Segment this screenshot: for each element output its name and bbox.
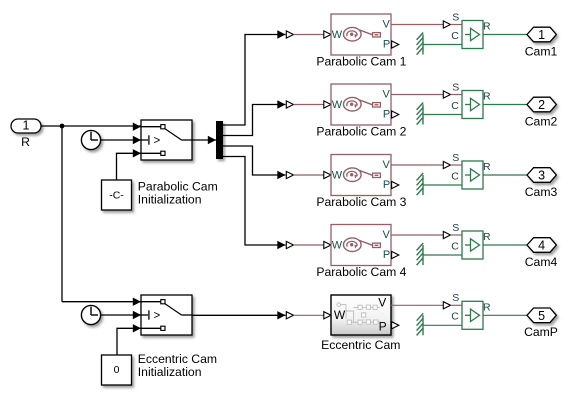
svg-text:Cam1: Cam1 <box>525 44 558 58</box>
svg-text:1: 1 <box>23 119 30 133</box>
svg-text:Parabolic Cam: Parabolic Cam <box>138 180 218 194</box>
svg-text:P: P <box>383 179 390 191</box>
svg-text:R: R <box>483 91 491 103</box>
svg-text:R: R <box>483 161 491 173</box>
svg-text:2: 2 <box>538 98 545 112</box>
svg-text:V: V <box>378 296 386 310</box>
svg-text:4: 4 <box>538 239 545 253</box>
svg-text:>: > <box>153 310 160 322</box>
svg-text:Parabolic Cam 2: Parabolic Cam 2 <box>316 125 406 139</box>
svg-text:P: P <box>383 249 390 261</box>
svg-text:S: S <box>452 11 459 23</box>
svg-text:Parabolic Cam 1: Parabolic Cam 1 <box>316 55 406 69</box>
svg-text:Initialization: Initialization <box>138 193 202 207</box>
svg-text:S: S <box>452 222 459 234</box>
svg-text:W: W <box>332 239 343 251</box>
svg-text:1: 1 <box>538 28 545 42</box>
svg-text:Parabolic Cam 4: Parabolic Cam 4 <box>316 265 406 279</box>
svg-text:V: V <box>383 89 391 101</box>
svg-text:C: C <box>451 100 459 112</box>
svg-text:Parabolic Cam 3: Parabolic Cam 3 <box>316 195 406 209</box>
svg-text:-C-: -C- <box>109 189 124 201</box>
svg-text:C: C <box>451 30 459 42</box>
svg-text:C: C <box>451 240 459 252</box>
svg-text:Eccentric Cam: Eccentric Cam <box>321 338 400 352</box>
svg-text:0: 0 <box>114 364 120 376</box>
svg-text:R: R <box>483 21 491 33</box>
svg-text:R: R <box>483 301 491 313</box>
svg-text:V: V <box>383 159 391 171</box>
svg-text:3: 3 <box>538 169 545 183</box>
svg-text:W: W <box>332 29 343 41</box>
svg-text:Initialization: Initialization <box>138 365 202 379</box>
svg-text:V: V <box>383 19 391 31</box>
svg-text:Cam3: Cam3 <box>525 185 558 199</box>
svg-text:P: P <box>379 320 387 334</box>
svg-text:R: R <box>21 135 30 149</box>
svg-text:Eccentric Cam: Eccentric Cam <box>138 352 217 366</box>
svg-text:P: P <box>383 109 390 121</box>
svg-text:S: S <box>452 81 459 93</box>
svg-text:CamP: CamP <box>524 325 558 339</box>
svg-text:C: C <box>451 170 459 182</box>
svg-text:W: W <box>332 99 343 111</box>
svg-text:5: 5 <box>538 309 545 323</box>
svg-text:P: P <box>383 39 390 51</box>
svg-text:W: W <box>334 308 346 322</box>
svg-text:Cam4: Cam4 <box>525 255 558 269</box>
svg-text:W: W <box>332 169 343 181</box>
svg-text:S: S <box>452 292 459 304</box>
svg-text:Cam2: Cam2 <box>525 114 558 128</box>
svg-text:>: > <box>153 135 160 147</box>
svg-text:S: S <box>452 152 459 164</box>
svg-text:C: C <box>451 311 459 323</box>
svg-text:V: V <box>383 229 391 241</box>
svg-text:R: R <box>483 231 491 243</box>
